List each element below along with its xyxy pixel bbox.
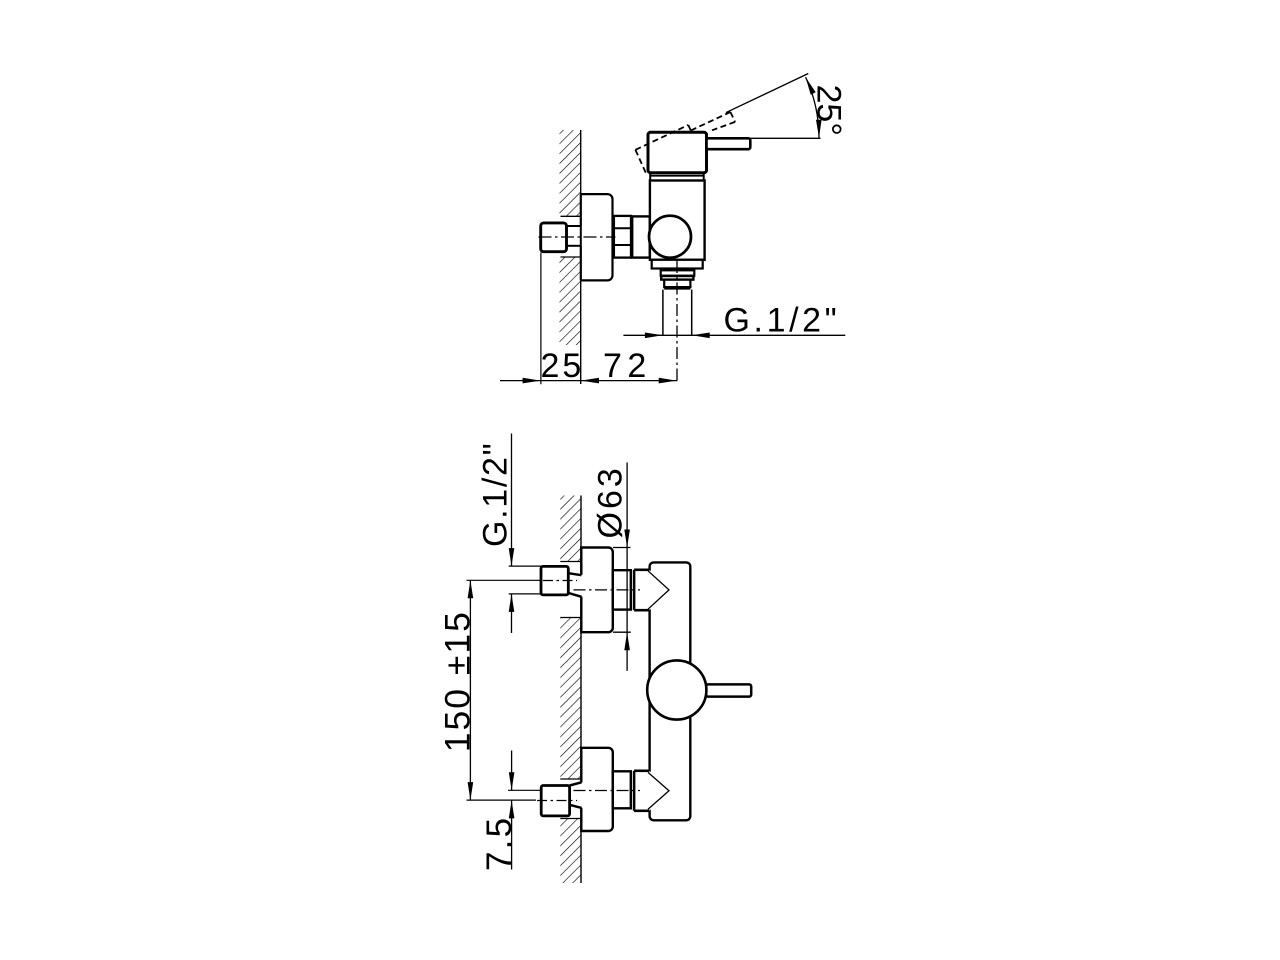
7.5 dimension arrows	[511, 751, 513, 791]
extension line left fitting (side view)	[540, 253, 542, 385]
150 extension bottom	[467, 799, 537, 801]
escutcheon top (front view)	[581, 548, 613, 633]
nipple top (front view)	[613, 570, 631, 609]
body lower step (side view)	[652, 260, 703, 269]
25 deg angle leg line	[726, 74, 808, 113]
chevron union top (front view)	[634, 570, 669, 610]
valve inlet block (side view)	[632, 216, 650, 257]
centerline vertical outlet (side view)	[676, 261, 678, 384]
outlet ring (side view)	[661, 276, 693, 280]
svg-text:7.5: 7.5	[480, 816, 519, 871]
outlet thread (side view)	[664, 280, 690, 287]
outlet pipe (side view)	[662, 290, 664, 336]
wall cut lines (front view)	[560, 561, 581, 563]
outlet collar (side view)	[661, 270, 695, 275]
bottom dimension line (side view)	[500, 380, 677, 382]
ball joint circle (side view)	[649, 216, 691, 258]
wall face line (front view)	[580, 496, 582, 574]
handle block (side view)	[648, 132, 707, 172]
supply thread lines top (front view)	[509, 565, 541, 567]
arc arrowhead top	[806, 77, 816, 95]
wall hatch (side view)	[560, 130, 581, 216]
escutcheon bottom (front view)	[581, 748, 613, 831]
dashed handle raised 25 deg	[635, 112, 735, 176]
wall face line (side view)	[580, 130, 582, 194]
150 dimension line (front view)	[469, 580, 471, 800]
collar groove (side view)	[649, 173, 651, 181]
handle lever (side view)	[707, 138, 751, 149]
centerline esc top (front view)	[574, 589, 641, 591]
horizontal reference line	[750, 137, 820, 139]
outlet thread end line	[664, 287, 690, 290]
centerline esc bottom (front view)	[574, 790, 641, 792]
dia 63 dimension line (front view)	[626, 463, 628, 671]
mixer body (front view)	[650, 562, 691, 820]
handle lever (front view)	[706, 684, 751, 696]
svg-text:150 ±15: 150 ±15	[438, 610, 478, 752]
svg-text:25: 25	[541, 347, 585, 385]
inlet nut bottom (front view)	[541, 786, 569, 816]
chevron union bottom (front view)	[634, 771, 669, 811]
wall hatch (front view)	[560, 496, 581, 562]
inlet nut top (front view)	[541, 566, 568, 595]
7.5 extension line	[508, 789, 541, 791]
svg-text:25°: 25°	[810, 85, 848, 136]
supply fitting neck (side view)	[567, 226, 581, 246]
escutcheon (side view wall plate)	[581, 194, 613, 280]
svg-text:72: 72	[603, 347, 652, 385]
G.1/2 dimension line (side view)	[623, 334, 845, 336]
150 extension top / supply line	[467, 579, 543, 581]
svg-text:Ø63: Ø63	[592, 465, 630, 538]
dia 63 extension lines	[613, 547, 631, 549]
angle arc	[806, 77, 819, 138]
centerline nut bottom (front view)	[537, 800, 577, 802]
G.1/2 dimension (front view)	[511, 434, 513, 567]
nipple bottom (front view)	[613, 771, 631, 808]
supply fitting body (side view)	[541, 223, 567, 252]
connector nut (side view)	[614, 216, 631, 258]
handle knob circle (front view)	[647, 660, 706, 719]
svg-text:G.1/2": G.1/2"	[724, 302, 841, 340]
arc arrowhead bottom	[816, 120, 822, 138]
escutcheon left edge segments (side view)	[580, 194, 582, 226]
eccentric cone top (front view)	[568, 573, 583, 597]
eccentric cone bottom (front view)	[570, 782, 584, 808]
svg-text:G.1/2": G.1/2"	[476, 442, 514, 547]
mixer body (side view)	[650, 181, 705, 260]
centerline nut top (front view)	[543, 580, 577, 582]
centerline horizontal (side view)	[539, 236, 616, 238]
wall hole cut lines (side view)	[561, 215, 581, 217]
